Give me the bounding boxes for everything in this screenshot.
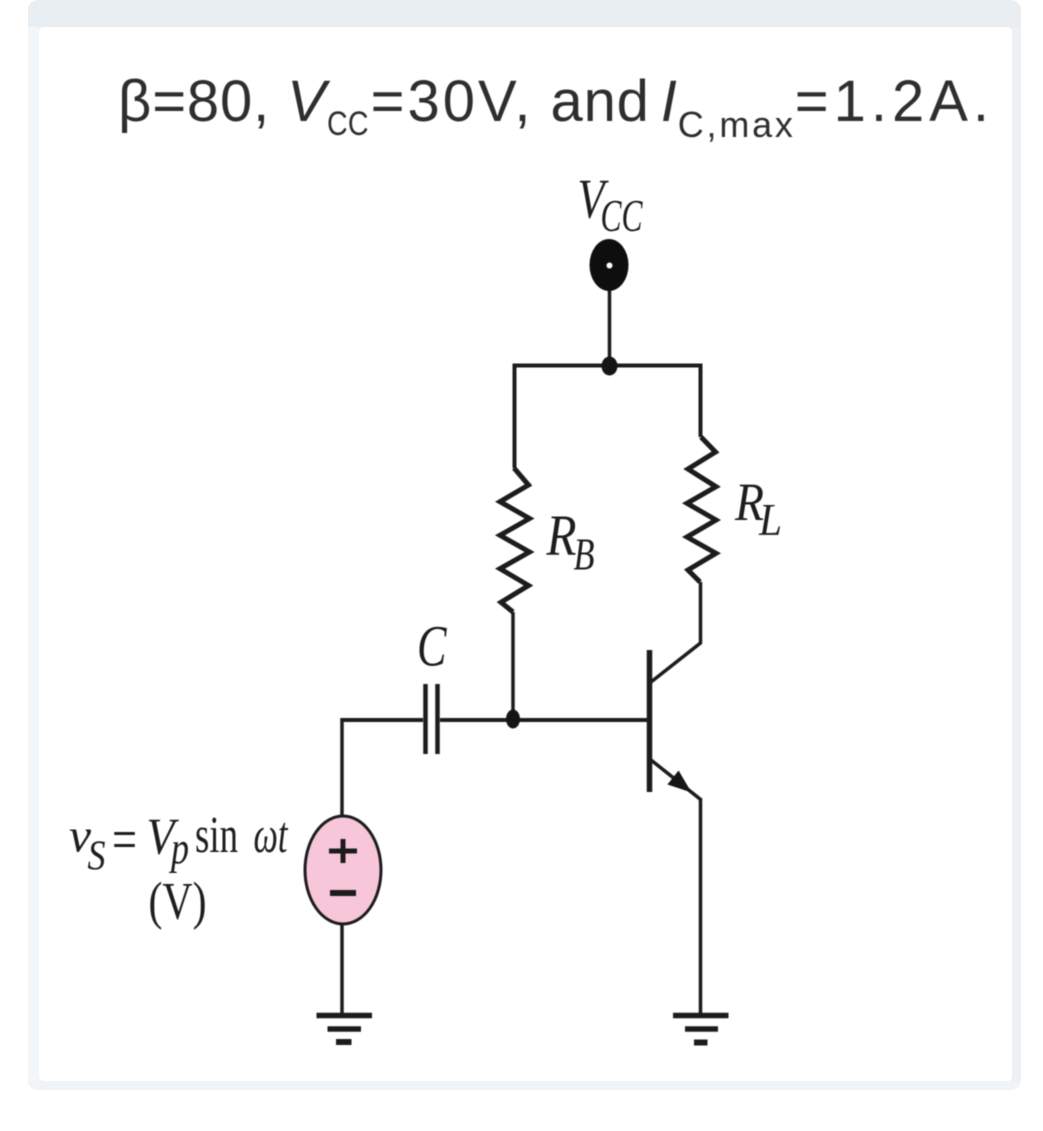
svg-text:S: S	[88, 834, 106, 880]
svg-text:B: B	[574, 529, 595, 580]
svg-text:=: =	[112, 807, 137, 873]
svg-text:CC: CC	[601, 190, 644, 241]
svg-text:C: C	[417, 614, 447, 679]
svg-text:ωt: ωt	[254, 807, 289, 864]
svg-text:p: p	[169, 824, 189, 874]
svg-text:R: R	[546, 503, 577, 568]
svg-text:L: L	[758, 494, 782, 545]
svg-text:sin: sin	[195, 807, 238, 864]
svg-text:(V): (V)	[149, 873, 207, 931]
